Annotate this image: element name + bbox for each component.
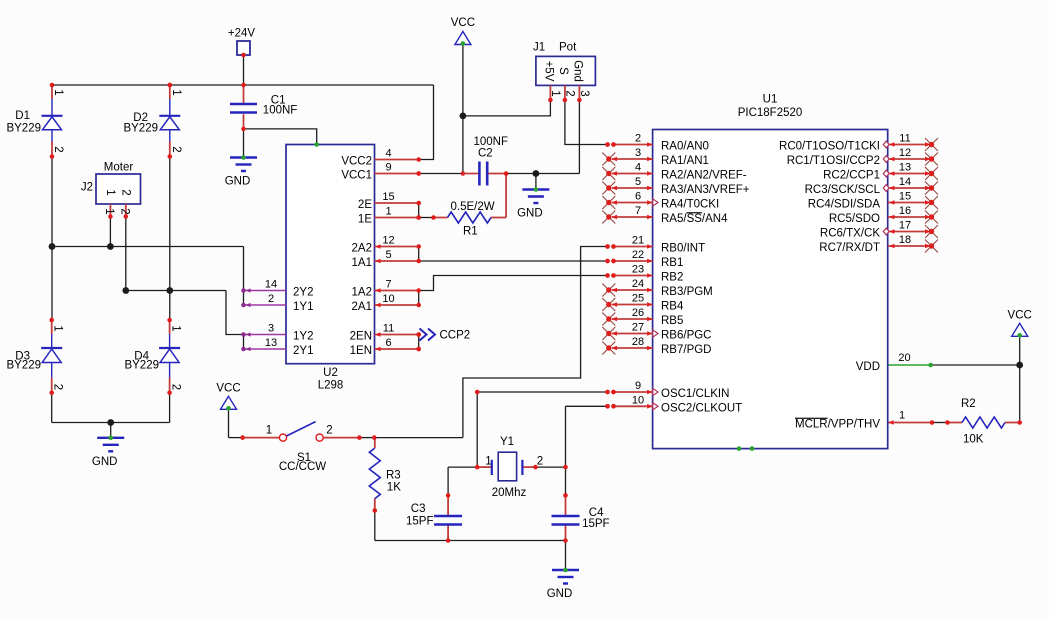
svg-text:2: 2 (563, 90, 575, 96)
svg-text:Moter: Moter (104, 162, 134, 174)
svg-text:2A1: 2A1 (352, 301, 372, 313)
svg-text:2: 2 (635, 133, 641, 145)
svg-text:11: 11 (899, 133, 910, 145)
svg-text:R3: R3 (386, 470, 401, 482)
svg-text:100NF: 100NF (474, 136, 509, 148)
svg-text:15: 15 (899, 191, 911, 203)
svg-text:2Y2: 2Y2 (293, 287, 313, 299)
svg-text:RB2: RB2 (661, 272, 683, 284)
svg-text:1: 1 (52, 325, 64, 331)
svg-text:1: 1 (103, 208, 115, 214)
svg-text:RB6/PGC: RB6/PGC (661, 330, 712, 342)
svg-text:RC6/TX/CK: RC6/TX/CK (820, 228, 880, 240)
svg-text:1Y2: 1Y2 (293, 331, 313, 343)
svg-text:12: 12 (899, 147, 911, 159)
svg-text:+5V: +5V (543, 61, 555, 82)
svg-text:Y1: Y1 (500, 436, 514, 448)
svg-text:RC5/SDO: RC5/SDO (829, 213, 880, 225)
svg-text:4: 4 (385, 148, 391, 160)
svg-text:R2: R2 (961, 398, 976, 410)
svg-text:7: 7 (385, 279, 391, 291)
svg-text:2: 2 (170, 146, 182, 152)
svg-text:2: 2 (119, 189, 131, 195)
svg-text:RC7/RX/DT: RC7/RX/DT (819, 242, 880, 254)
svg-text:RB4: RB4 (661, 301, 684, 313)
svg-text:2EN: 2EN (350, 331, 372, 343)
svg-text:VDD: VDD (856, 361, 880, 373)
svg-text:1: 1 (52, 89, 64, 95)
svg-text:Gnd: Gnd (572, 60, 584, 82)
svg-text:C2: C2 (478, 148, 493, 160)
svg-text:RB5: RB5 (661, 315, 683, 327)
svg-text:MCLR/VPP/THV: MCLR/VPP/THV (795, 419, 880, 431)
svg-text:BY229: BY229 (6, 123, 41, 135)
svg-text:J2: J2 (81, 182, 93, 194)
svg-text:VCC: VCC (216, 383, 240, 395)
svg-text:13: 13 (265, 337, 277, 349)
svg-text:2: 2 (170, 384, 182, 390)
svg-text:16: 16 (899, 205, 911, 217)
svg-text:6: 6 (635, 191, 641, 203)
svg-text:VCC1: VCC1 (341, 170, 372, 182)
svg-text:VCC: VCC (451, 17, 475, 29)
svg-text:17: 17 (899, 220, 911, 232)
svg-text:100NF: 100NF (263, 105, 298, 117)
svg-text:10: 10 (632, 394, 644, 406)
svg-text:D1: D1 (15, 110, 30, 122)
svg-text:2Y1: 2Y1 (293, 345, 313, 357)
svg-text:4: 4 (635, 162, 641, 174)
svg-text:RA3/AN3/VREF+: RA3/AN3/VREF+ (661, 184, 750, 196)
svg-text:9: 9 (635, 380, 641, 392)
svg-text:+24V: +24V (228, 28, 256, 40)
svg-text:R1: R1 (463, 226, 478, 238)
svg-text:25: 25 (632, 293, 644, 305)
svg-text:13: 13 (899, 162, 911, 174)
svg-text:7: 7 (635, 205, 641, 217)
svg-text:15PF: 15PF (406, 516, 434, 528)
svg-text:1: 1 (899, 410, 905, 422)
svg-text:C3: C3 (411, 503, 426, 515)
svg-text:RB7/PGD: RB7/PGD (661, 344, 712, 356)
svg-text:GND: GND (92, 456, 118, 468)
svg-text:1: 1 (104, 189, 116, 195)
svg-text:RC1/T1OSI/CCP2: RC1/T1OSI/CCP2 (787, 155, 880, 167)
svg-text:J1: J1 (533, 42, 545, 54)
svg-text:10: 10 (382, 293, 394, 305)
svg-text:5: 5 (635, 176, 641, 188)
svg-text:VCC2: VCC2 (341, 156, 372, 168)
svg-text:CCP2: CCP2 (440, 330, 471, 342)
svg-text:23: 23 (632, 264, 644, 276)
svg-text:26: 26 (632, 307, 644, 319)
svg-text:1: 1 (170, 89, 182, 95)
svg-text:5: 5 (385, 249, 391, 261)
svg-text:20: 20 (898, 352, 910, 364)
svg-text:RA1/AN1: RA1/AN1 (661, 155, 709, 167)
svg-text:21: 21 (632, 235, 644, 247)
svg-text:GND: GND (517, 208, 543, 220)
svg-text:S: S (557, 67, 569, 75)
svg-text:CC/CCW: CC/CCW (279, 461, 326, 473)
svg-text:RB0/INT: RB0/INT (661, 243, 705, 255)
svg-text:2: 2 (537, 456, 543, 468)
svg-text:27: 27 (632, 322, 644, 334)
svg-text:RA2/AN2/VREF-: RA2/AN2/VREF- (661, 170, 747, 182)
svg-text:1: 1 (549, 90, 561, 96)
svg-text:1K: 1K (387, 482, 401, 494)
svg-text:3: 3 (268, 323, 274, 335)
svg-text:1: 1 (485, 456, 491, 468)
svg-text:U2: U2 (323, 367, 338, 379)
svg-text:RA4/T0CKI: RA4/T0CKI (661, 199, 719, 211)
svg-text:11: 11 (383, 323, 394, 335)
svg-text:PIC18F2520: PIC18F2520 (738, 107, 803, 119)
svg-text:2: 2 (326, 425, 332, 437)
svg-text:6: 6 (385, 337, 391, 349)
svg-text:22: 22 (632, 249, 644, 261)
svg-text:24: 24 (632, 278, 644, 290)
svg-text:20Mhz: 20Mhz (492, 487, 527, 499)
svg-text:3: 3 (578, 90, 590, 96)
svg-text:RA5/SS/AN4: RA5/SS/AN4 (661, 213, 728, 225)
svg-text:RC2/CCP1: RC2/CCP1 (823, 170, 880, 182)
svg-text:RC3/SCK/SCL: RC3/SCK/SCL (805, 184, 881, 196)
svg-text:OSC2/CLKOUT: OSC2/CLKOUT (661, 403, 742, 415)
svg-text:2: 2 (268, 293, 274, 305)
svg-text:RC0/T1OSO/T1CKI: RC0/T1OSO/T1CKI (779, 141, 880, 153)
svg-text:BY229: BY229 (6, 360, 41, 372)
svg-text:1: 1 (170, 325, 182, 331)
svg-text:U1: U1 (763, 94, 778, 106)
svg-text:1: 1 (385, 206, 391, 218)
svg-text:2: 2 (52, 146, 64, 152)
svg-text:1: 1 (266, 425, 272, 437)
svg-text:1E: 1E (358, 214, 372, 226)
svg-text:2E: 2E (358, 199, 372, 211)
svg-text:Pot: Pot (559, 42, 577, 54)
svg-text:15: 15 (382, 191, 394, 203)
svg-text:2: 2 (118, 208, 130, 214)
svg-text:1EN: 1EN (350, 345, 372, 357)
svg-text:BY229: BY229 (124, 360, 159, 372)
svg-text:10K: 10K (963, 434, 984, 446)
svg-text:GND: GND (547, 588, 573, 600)
svg-text:1A1: 1A1 (352, 257, 372, 269)
svg-text:14: 14 (265, 279, 277, 291)
svg-text:18: 18 (899, 234, 911, 246)
svg-text:1A2: 1A2 (352, 287, 372, 299)
svg-text:L298: L298 (318, 380, 344, 392)
svg-text:14: 14 (899, 176, 911, 188)
svg-text:15PF: 15PF (582, 518, 610, 530)
svg-text:12: 12 (382, 235, 394, 247)
svg-text:VCC: VCC (1008, 310, 1032, 322)
svg-text:OSC1/CLKIN: OSC1/CLKIN (661, 388, 729, 400)
svg-text:0.5E/2W: 0.5E/2W (451, 201, 495, 213)
svg-text:RA0/AN0: RA0/AN0 (661, 141, 709, 153)
svg-text:1Y1: 1Y1 (293, 301, 313, 313)
svg-text:9: 9 (385, 162, 391, 174)
svg-text:3: 3 (635, 147, 641, 159)
svg-text:BY229: BY229 (123, 123, 158, 135)
svg-text:2: 2 (52, 384, 64, 390)
svg-text:2A2: 2A2 (352, 243, 372, 255)
svg-text:28: 28 (632, 336, 644, 348)
svg-text:RC4/SDI/SDA: RC4/SDI/SDA (808, 199, 881, 211)
svg-text:RB3/PGM: RB3/PGM (661, 286, 713, 298)
svg-text:GND: GND (225, 176, 251, 188)
svg-text:RB1: RB1 (661, 257, 683, 269)
